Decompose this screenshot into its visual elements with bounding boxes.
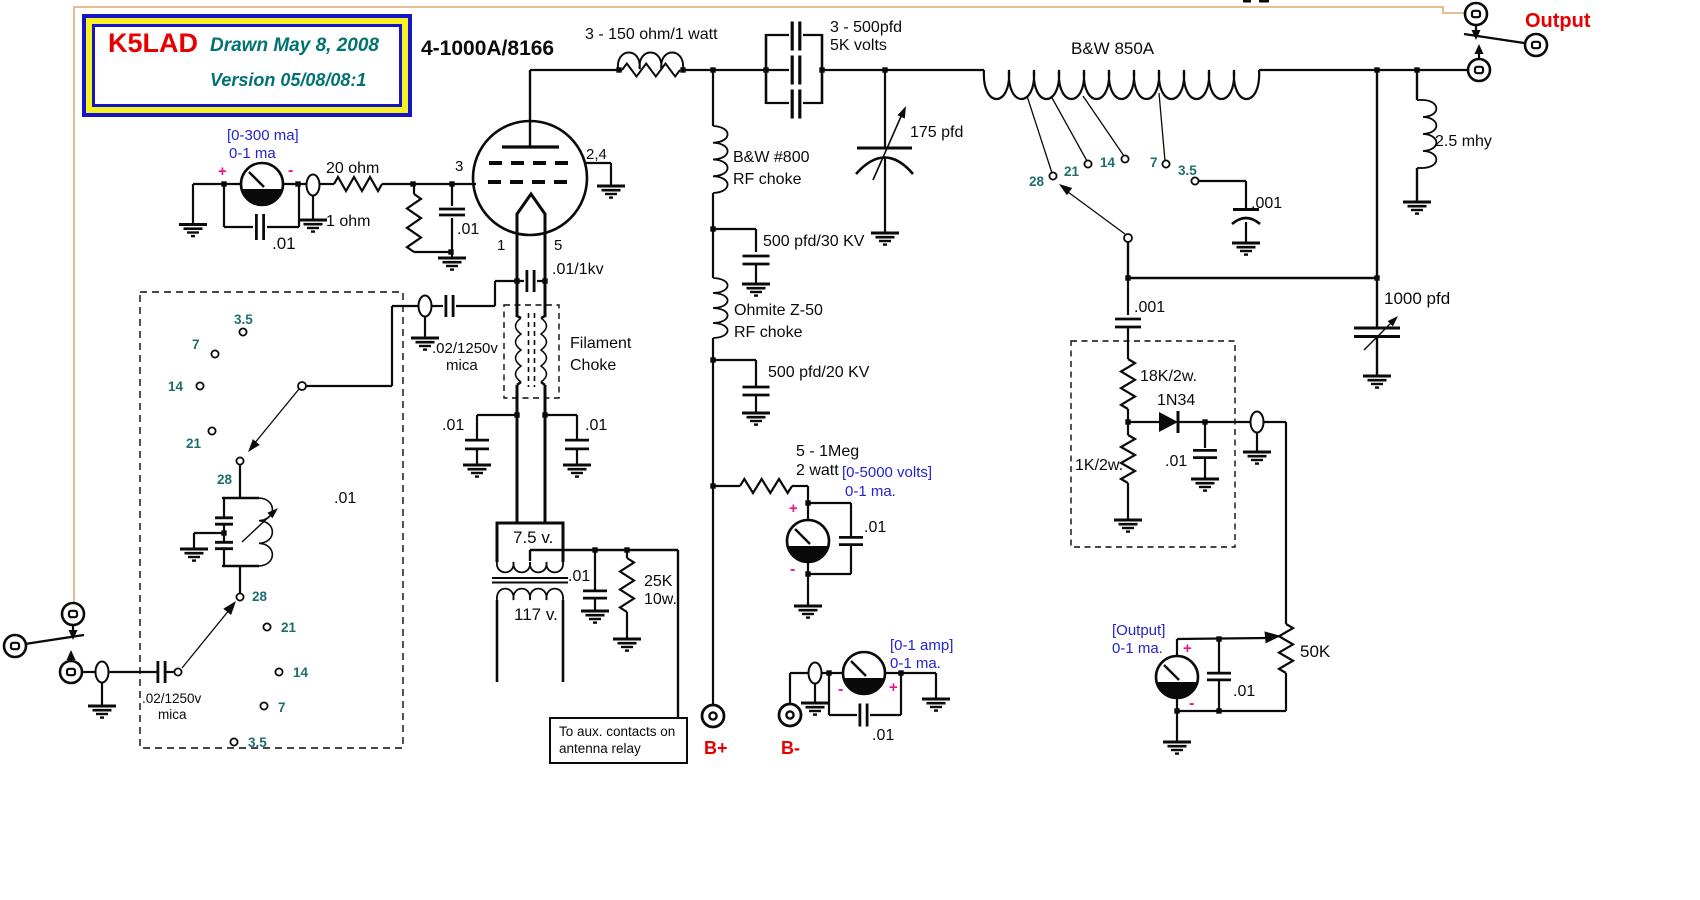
node 2.5mhy branch <box>1414 67 1419 72</box>
label mica <box>446 357 478 374</box>
node 1Meg branch <box>710 483 715 488</box>
ground G10 C8 <box>742 284 770 296</box>
wire input cap right <box>166 671 174 673</box>
connector input left <box>4 635 26 657</box>
svg-text:21: 21 <box>186 436 202 451</box>
node grid junction <box>410 181 415 186</box>
label - grid meter <box>288 162 293 179</box>
label RF choke L3 <box>734 324 803 341</box>
label pin 5 <box>554 237 562 254</box>
svg-text:7.5 v.: 7.5 v. <box>513 528 553 547</box>
svg-text:.01: .01 <box>568 568 590 585</box>
svg-text:K5LAD: K5LAD <box>108 28 198 58</box>
ground G16 C14 <box>1232 243 1260 255</box>
svg-text:1: 1 <box>497 237 505 254</box>
svg-text:28: 28 <box>1029 174 1045 189</box>
svg-text:50K: 50K <box>1300 642 1331 661</box>
svg-text:[Output]: [Output] <box>1112 622 1165 639</box>
svg-text:Ohmite Z-50: Ohmite Z-50 <box>734 302 823 319</box>
node out meter minus <box>1174 708 1179 713</box>
connector output bottom <box>1468 59 1490 81</box>
label 0-1 ma. HV <box>845 483 896 500</box>
svg-text:3.5: 3.5 <box>234 312 253 327</box>
label low 28 <box>252 589 268 604</box>
contact in 14 <box>196 382 203 389</box>
wire input line <box>109 671 157 673</box>
svg-text:7: 7 <box>278 700 286 715</box>
contact in 28 <box>236 457 243 464</box>
wire out meter ground <box>1176 698 1178 742</box>
node out meter cap bottom <box>1216 708 1221 713</box>
node rotor line left <box>1125 275 1130 280</box>
label low 14 <box>293 665 309 680</box>
capacitor C19a padder upper <box>215 498 233 533</box>
resistor R8 50K pot <box>1279 624 1293 673</box>
choke L3 Ohmite Z-50 <box>713 278 728 338</box>
svg-text:0-1 ma.: 0-1 ma. <box>1112 640 1163 657</box>
node 175pfd branch <box>882 67 887 72</box>
node suppressor left <box>616 67 621 72</box>
label .01 meter bypass <box>272 234 296 253</box>
svg-text:.01: .01 <box>585 417 607 434</box>
aux relay note box <box>550 718 687 763</box>
svg-text:[0-1 amp]: [0-1 amp] <box>890 637 953 654</box>
label - plate meter <box>838 681 843 698</box>
svg-text:2.5 mhy: 2.5 mhy <box>1435 133 1492 150</box>
contact low 3.5 <box>230 738 237 745</box>
label B&W 850A <box>1071 39 1155 58</box>
svg-text:.02/1250v: .02/1250v <box>432 340 498 357</box>
node filament right leg <box>542 278 547 283</box>
switch arm S2 <box>182 601 236 668</box>
title text Drawn May 8, 2008 <box>210 35 379 56</box>
label [0-5000 volts] <box>842 464 932 481</box>
capacitor C12a 500pfd <box>792 22 800 51</box>
capacitor C6 .01 fil right <box>565 415 589 465</box>
capacitor C12b 500pfd <box>792 56 800 85</box>
wire diode cathode <box>1178 421 1250 423</box>
svg-text:Output: Output <box>1525 10 1591 32</box>
wire output column <box>1376 70 1378 278</box>
wire 28 to padder <box>239 465 241 498</box>
tube filament V <box>517 194 545 214</box>
svg-text:[0-5000 volts]: [0-5000 volts] <box>842 464 932 481</box>
tank tap 28 <box>1027 96 1052 173</box>
capacitor C5 .01 fil left <box>465 415 489 465</box>
filament choke dashed box <box>504 305 559 398</box>
label Ohmite Z-50 <box>734 302 823 319</box>
svg-text:+: + <box>889 679 898 696</box>
svg-text:7: 7 <box>192 337 200 352</box>
title text K5LAD <box>108 28 198 58</box>
svg-text:[0-300 ma]: [0-300 ma] <box>227 127 299 144</box>
arrow relay down <box>1472 25 1481 40</box>
ground G13 HV meter <box>794 606 822 618</box>
wire meter bypass left leg <box>223 184 225 227</box>
wire B+ choke top <box>712 70 714 126</box>
wire plate meter right <box>885 673 936 699</box>
label [Output] <box>1112 622 1165 639</box>
label - HV meter <box>790 561 795 578</box>
filament choke core <box>529 313 535 387</box>
wire antenna loop (tan) top and left <box>74 7 1464 603</box>
label low 7 <box>278 700 286 715</box>
svg-text:B+: B+ <box>704 738 728 758</box>
label .01 detector <box>1165 453 1187 470</box>
meter M3 plate 0-1amp <box>843 652 885 694</box>
svg-text:.01: .01 <box>272 234 296 253</box>
wire R5 to meter <box>792 486 808 521</box>
inductor L6 padder variable <box>259 498 272 566</box>
contact low 28 <box>236 593 243 600</box>
wire to R5 <box>713 485 740 487</box>
svg-text:117 v.: 117 v. <box>514 605 558 624</box>
svg-text:B-: B- <box>781 738 800 758</box>
ground G22 output meter <box>1163 742 1191 754</box>
ground G11 C13 <box>871 233 899 245</box>
label pin 1 <box>497 237 505 254</box>
label low 21 <box>281 620 297 635</box>
label tap 3.5 <box>1178 163 1197 178</box>
filament choke left winding <box>516 316 522 385</box>
label To aux. contacts on <box>559 724 675 739</box>
ground G7 fil right <box>563 465 591 477</box>
wire aux relay feed <box>530 550 678 718</box>
label + plate meter <box>889 679 898 696</box>
node bank right <box>819 67 824 72</box>
meter M2 HV 0-1ma <box>787 520 829 562</box>
choke L2 B&W #800 <box>713 126 728 193</box>
node B+ column top <box>710 67 715 72</box>
wire R2/C2 bottom <box>414 251 452 253</box>
svg-text:.01/1kv: .01/1kv <box>552 261 604 278</box>
label + HV meter <box>789 500 798 517</box>
label 1 ohm <box>326 213 370 230</box>
switch arm S1a <box>248 389 299 452</box>
capacitor C10 .01 HV <box>839 537 863 544</box>
node fil bypass right <box>542 412 547 417</box>
svg-text:2,4: 2,4 <box>586 146 607 163</box>
bandswitch dashed box <box>140 292 403 748</box>
label 500 pfd/30 KV <box>763 233 865 250</box>
svg-text:RF choke: RF choke <box>734 324 803 341</box>
label 0-1 ma. output <box>1112 640 1163 657</box>
padder top bar <box>222 497 259 499</box>
label 20 ohm <box>326 160 379 177</box>
contact tap 7 <box>1162 160 1169 167</box>
wire HV meter minus <box>807 562 809 606</box>
svg-text:14: 14 <box>293 665 309 680</box>
ground G3 grid network <box>438 252 466 270</box>
node grid-meter plus <box>221 181 226 186</box>
node plate meter minus <box>826 670 831 675</box>
svg-text:B&W #800: B&W #800 <box>733 149 810 166</box>
label .01 fil left <box>442 417 464 434</box>
transformer primary legs <box>497 600 563 682</box>
resistor R3 25K <box>620 550 634 639</box>
wire 175pfd stem <box>884 70 886 147</box>
contact low 14 <box>275 668 282 675</box>
capacitor C8 500pfd/30KV <box>743 256 770 284</box>
capacitor C4 .02/1250v mica <box>446 295 453 317</box>
wire grid-meter left <box>193 183 242 185</box>
wire 7.5v tap <box>529 550 531 561</box>
resistor R2 1 ohm <box>407 184 421 252</box>
contact in common <box>298 382 306 390</box>
capacitor C12c 500pfd <box>792 90 800 119</box>
label .02/1250v input <box>142 691 202 706</box>
svg-text:mica: mica <box>158 707 187 722</box>
transformer T1 top hat <box>497 523 563 562</box>
contact in 3.5 <box>239 328 246 335</box>
top edge marks <box>1243 0 1269 3</box>
capacitor C11 .01 plate meter <box>860 704 867 727</box>
capacitor C20 .02/1250v mica input <box>158 661 165 683</box>
svg-text:3 - 500pfd: 3 - 500pfd <box>830 19 902 36</box>
svg-text:2 watt: 2 watt <box>796 462 839 479</box>
wire plate line right <box>822 69 984 71</box>
suppressor L1 coil <box>618 52 683 69</box>
bandswitch arm S1b <box>1059 184 1125 234</box>
wire to C8 <box>713 229 756 252</box>
svg-text:5: 5 <box>554 237 562 254</box>
svg-text:1K/2w.: 1K/2w. <box>1075 457 1123 474</box>
connector output right <box>1525 34 1547 56</box>
node filament left leg <box>514 278 519 283</box>
node grid-meter minus <box>295 181 300 186</box>
wire plate line left <box>530 69 622 71</box>
contact tap 28 <box>1049 172 1056 179</box>
svg-text:14: 14 <box>168 379 184 394</box>
contact in 21 <box>208 427 215 434</box>
terminal B- <box>779 704 801 726</box>
bandswitch rotor S1b <box>1124 234 1132 242</box>
transformer core <box>492 578 568 583</box>
wire drive riser <box>494 281 496 306</box>
svg-text:14: 14 <box>1100 155 1116 170</box>
label 1000 pfd <box>1384 289 1450 308</box>
detector dashed box <box>1071 341 1235 547</box>
node 20KV branch <box>710 357 715 362</box>
label tube type 4-1000A/8166 <box>421 37 554 60</box>
label 5 - 1Meg <box>796 443 859 460</box>
capacitor C9 500pfd/20KV <box>743 387 770 413</box>
feedthrough FT4 detector <box>1251 412 1264 433</box>
node out meter cap top <box>1216 636 1221 641</box>
node HV meter minus <box>805 571 810 576</box>
transformer 7.5v winding <box>497 562 563 572</box>
node rotor line right <box>1374 275 1379 280</box>
svg-text:B&W 850A: B&W 850A <box>1071 39 1155 58</box>
arrow L6 adjust <box>242 508 278 542</box>
connector input bottom <box>60 661 82 683</box>
wire diode anode <box>1128 421 1159 423</box>
ground G14 under FT3 <box>801 683 829 715</box>
svg-text:1N34: 1N34 <box>1157 392 1195 409</box>
label in 3.5 <box>234 312 253 327</box>
svg-text:3.5: 3.5 <box>1178 163 1197 178</box>
capacitor C3 .01/1kv <box>527 270 534 292</box>
arrow relay up <box>1475 44 1484 59</box>
node grid bottom junction <box>448 249 453 254</box>
node detector output <box>1202 419 1207 424</box>
svg-text:.01: .01 <box>442 417 464 434</box>
wire padder to 28 lower <box>239 566 241 594</box>
svg-text:3 - 150 ohm/1 watt: 3 - 150 ohm/1 watt <box>585 26 718 43</box>
svg-text:Choke: Choke <box>570 357 616 374</box>
cap bank stub bottom <box>766 102 822 104</box>
svg-text:500 pfd/20 KV: 500 pfd/20 KV <box>768 364 870 381</box>
svg-text:.02/1250v: .02/1250v <box>142 691 202 706</box>
label .01/1kv <box>552 261 604 278</box>
tube grid row 2 <box>488 180 570 184</box>
svg-text:28: 28 <box>217 472 233 487</box>
svg-text:.01: .01 <box>864 519 886 536</box>
wire B+ lower <box>712 338 714 705</box>
ground G6 fil left <box>463 465 491 477</box>
label RF choke L2 <box>733 171 802 188</box>
wire detector to pot <box>1264 422 1286 624</box>
wire plate line mid <box>683 69 789 71</box>
svg-text:Drawn May 8, 2008: Drawn May 8, 2008 <box>210 35 379 56</box>
label .01 stray <box>334 490 356 507</box>
contact in 7 <box>211 350 218 357</box>
label + output meter <box>1183 640 1192 657</box>
label .001 padder <box>1251 195 1282 212</box>
node detector junction <box>1125 419 1130 424</box>
wire common to riser <box>306 306 392 386</box>
feedthrough FT2 drive <box>419 296 432 317</box>
label 0-1 ma <box>229 145 276 162</box>
label low 3.5 <box>248 735 267 750</box>
tank tap 7 <box>1159 93 1165 161</box>
wire pot bottom <box>1177 673 1286 711</box>
capacitor C18 .01 output meter <box>1207 639 1231 711</box>
wire to C9 <box>713 360 756 387</box>
capacitor C19b padder lower <box>215 534 233 566</box>
ground G17 C15 <box>1363 376 1391 388</box>
label antenna relay <box>559 741 641 756</box>
resistor R1 20 ohm <box>334 177 382 191</box>
arrow C15 adjust <box>1364 316 1398 350</box>
svg-text:.01: .01 <box>457 221 479 238</box>
ground G21 under FT4 <box>1243 432 1271 464</box>
tank tap 21 <box>1051 96 1087 161</box>
svg-text:20 ohm: 20 ohm <box>326 160 379 177</box>
feedthrough FT3 B- line <box>809 663 822 684</box>
capacitor C7 .01 aux <box>583 550 607 611</box>
wire HV cap branch <box>808 503 851 574</box>
node suppressor right <box>680 67 685 72</box>
svg-text:Filament: Filament <box>570 335 632 352</box>
wire out meter top <box>1177 638 1266 656</box>
wire grid-meter right <box>283 183 307 185</box>
resistor R6 18K/2w <box>1121 359 1135 422</box>
label 1N34 <box>1157 392 1195 409</box>
tank tap 14 <box>1083 96 1124 156</box>
label 25K <box>644 573 673 590</box>
capacitor C2 .01 grid <box>439 184 465 252</box>
ground G15 plate meter <box>922 699 950 711</box>
node padder mid <box>221 530 226 535</box>
svg-text:-: - <box>288 162 293 179</box>
label + grid meter <box>218 163 227 180</box>
svg-text:0-1 ma.: 0-1 ma. <box>890 655 941 672</box>
label mica input <box>158 707 187 722</box>
wire anode lead <box>529 70 531 146</box>
svg-text:+: + <box>218 163 227 180</box>
contact tap 3.5 <box>1191 177 1198 184</box>
title text Version 05/08/08:1 <box>210 70 366 90</box>
svg-text:500 pfd/30 KV: 500 pfd/30 KV <box>763 233 865 250</box>
svg-text:antenna relay: antenna relay <box>559 741 641 756</box>
wire tank to output node <box>1259 69 1468 71</box>
wire FT1 to R1 <box>320 183 334 185</box>
label 117 v. <box>514 605 558 624</box>
padder bottom bar <box>222 565 259 567</box>
label 500 pfd/20 KV <box>768 364 870 381</box>
label .01 plate meter <box>872 727 894 744</box>
label 10w. <box>644 591 677 608</box>
wire plate meter bypass <box>829 673 901 715</box>
label 50K <box>1300 642 1331 661</box>
ground G1 left of grid meter <box>179 184 207 236</box>
svg-text:.001: .001 <box>1134 299 1165 316</box>
wire 3.5 padder <box>1199 181 1246 208</box>
label tap 7 <box>1150 155 1158 170</box>
label 18K/2w. <box>1140 368 1197 385</box>
ground G19 R7 <box>1114 520 1142 532</box>
svg-text:3.5: 3.5 <box>248 735 267 750</box>
contact input common <box>174 668 181 675</box>
capacitor C16 .001 detector <box>1115 278 1141 359</box>
wire padder mid tap <box>194 533 224 549</box>
capacitor C17 .01 detector <box>1193 422 1217 479</box>
label 5K volts <box>830 37 887 54</box>
label .01 fil right <box>585 417 607 434</box>
node fil bypass left <box>514 412 519 417</box>
label Choke <box>570 357 616 374</box>
title box border <box>84 16 410 115</box>
ground G2 under FT1 <box>299 195 327 232</box>
svg-text:.01: .01 <box>1233 683 1255 700</box>
contact low 7 <box>260 702 267 709</box>
ground G18 L5 <box>1403 202 1431 214</box>
label tap 21 <box>1064 164 1080 179</box>
label .01 HV <box>864 519 886 536</box>
label 7.5 v. <box>513 528 553 547</box>
meter M1 grid 0-1ma <box>241 163 283 205</box>
resistor R4 150 ohm <box>622 64 680 77</box>
label .01 output meter <box>1233 683 1255 700</box>
wire meter bypass bottom <box>224 226 299 228</box>
contact tap 21 <box>1084 160 1091 167</box>
label in 14 <box>168 379 184 394</box>
capacitor C15 1000pfd variable <box>1354 278 1400 376</box>
capacitor C1 .01 grid meter bypass <box>256 214 263 240</box>
label B- <box>781 738 800 758</box>
node bank left <box>763 67 768 72</box>
label .01 grid cap <box>457 221 479 238</box>
label .02/1250v <box>432 340 498 357</box>
label B+ <box>704 738 728 758</box>
feedthrough FT5 input <box>96 662 109 683</box>
arrow input relay up <box>67 650 76 661</box>
tube plate bar <box>502 145 559 148</box>
svg-text:.01: .01 <box>334 490 356 507</box>
resistor R5 5-1Meg 2watt <box>740 479 792 493</box>
label tap 14 <box>1100 155 1116 170</box>
